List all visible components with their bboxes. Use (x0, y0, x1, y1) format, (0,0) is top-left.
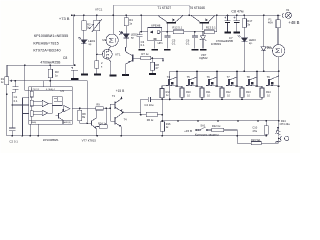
node dots protection (237, 120, 280, 139)
svg-text:R9: R9 (96, 102, 100, 106)
555 comparator 2 (42, 110, 48, 116)
LED VD2 (123, 34, 129, 38)
wire R9 out to VT bases (103, 108, 110, 124)
chassis ground hatch (275, 138, 281, 143)
wire collector bus y=71 (170, 70, 279, 72)
svg-text:Т6 КТ816Б: Т6 КТ816Б (189, 6, 205, 10)
transistor VT3 upper (114, 101, 116, 108)
555 pin stubs bottom (30, 124, 38, 135)
capacitor C8 electrolytic x=227.1 (227, 15, 229, 31)
555 divider resistors (31, 87, 33, 125)
wire R1 adjust arrow line y=80.3 (9, 81, 87, 124)
wire x=43 into box top (43, 81, 45, 87)
wire resistor R3 column x=50 (49, 65, 51, 81)
output connector (280, 136, 281, 140)
transistor T2 legs (191, 16, 215, 30)
capacitor C3 column x=139 (138, 32, 140, 49)
wire R8 column x=79.4 (80, 108, 91, 123)
wire R24k left stub (96, 126, 99, 128)
ground bar C5 (164, 49, 171, 51)
wire mid sense line y=98.6 (141, 99, 262, 114)
svg-text:4700мкФ25В: 4700мкФ25В (40, 60, 61, 64)
ground bar 2k column (94, 73, 101, 75)
regulator gnd bar mark (153, 38, 156, 40)
motor M1 circle (273, 45, 285, 57)
thermistor RK1 body (94, 20, 100, 30)
capacitor C6 column x=194.5 (194, 32, 196, 49)
svg-text:47м: 47м (252, 129, 257, 133)
svg-text:КР1008ВИ1=NE555: КР1008ВИ1=NE555 (34, 34, 68, 38)
svg-text:+15 В: +15 В (116, 89, 124, 93)
wire R1 left column x=6 (6, 65, 8, 136)
capacitor C2 (9, 128, 15, 131)
transistor T1 legs (158, 16, 183, 32)
wire riser x=141 bus to line (140, 15, 142, 32)
svg-text:ВЫХОД: ВЫХОД (62, 122, 70, 124)
svg-text:R12 5.1: R12 5.1 (172, 25, 182, 29)
svg-text:НР1: НР1 (158, 41, 164, 45)
svg-text:Т1 КТ827: Т1 КТ827 (157, 6, 171, 10)
wire pin2 from C column (12, 104, 28, 106)
switch SA1 (199, 129, 201, 131)
svg-text:R24 1к: R24 1к (98, 121, 107, 125)
svg-text:кр.: кр. (249, 41, 253, 45)
ground bar M2/VT1 column (109, 74, 116, 76)
resistor R13 (204, 30, 214, 34)
555 output buffer (64, 106, 70, 112)
ground bar LED1 column (81, 73, 88, 75)
svg-text:0.1: 0.1 (172, 42, 176, 46)
svg-text:+48 В: +48 В (288, 20, 299, 25)
svg-text:М2: М2 (102, 38, 106, 42)
svg-text:VT7 КТ815: VT7 КТ815 (82, 138, 97, 142)
regulator circle mark (157, 31, 160, 34)
svg-text:VT1: VT1 (115, 53, 121, 57)
output cell T9 (266, 76, 279, 86)
connector + lamp HL1 (279, 14, 281, 16)
wire R6 right to column x=162 (157, 99, 162, 135)
wire protection feed y=129.6 (195, 130, 237, 136)
capacitor C1 (12, 87, 18, 89)
svg-text:0.1: 0.1 (141, 43, 145, 47)
svg-text:R7 1к: R7 1к (141, 52, 149, 56)
svg-text:С2 0.1: С2 0.1 (9, 139, 18, 143)
svg-text:С8 47м: С8 47м (231, 9, 244, 13)
thermistor t arrow (89, 24, 94, 29)
resistor R16 (160, 122, 164, 132)
svg-text:4700мкФ25В: 4700мкФ25В (216, 39, 233, 43)
wire VT out y=112 (123, 111, 141, 113)
output cell T7 (226, 71, 244, 99)
svg-text:0.1: 0.1 (186, 42, 190, 46)
diode VD1 column x=263.2 (263, 15, 265, 71)
wire column R4/VD2 x=125.8 (124, 15, 127, 51)
wire M2 top riser x=112.7 (112, 5, 114, 34)
LED3 x=244 (242, 38, 248, 42)
555 output pin wire y=107.5 (72, 107, 95, 109)
ground bar C9 (233, 32, 240, 34)
potentiometer R24 (278, 121, 280, 137)
node dots top bus (71, 15, 279, 17)
ground bar 47k (149, 73, 156, 75)
transistor T1 base bar (166, 22, 176, 24)
resistor R24 1k horizontal (99, 125, 107, 128)
capacitor C5 column x=167 (166, 32, 168, 49)
wire M2 to VT1 (108, 46, 110, 49)
LED1 symbol on x=83.5 (81, 40, 87, 44)
ground bar C3 (138, 49, 145, 51)
wire top bus +73V y=15 (71, 14, 278, 16)
svg-text:40А: 40А (268, 21, 273, 25)
wire bottom bus y=135.4 (7, 135, 267, 137)
node dots block (161, 71, 279, 122)
svg-text:47: 47 (155, 66, 159, 70)
wire column C8-big x=73.5 (73, 15, 75, 78)
svg-text:С8: С8 (63, 56, 67, 60)
wire R6 left stub (141, 114, 147, 116)
transistor VT2 mirrored (132, 54, 134, 61)
svg-text:+73 В: +73 В (59, 16, 70, 21)
resistor R6 (146, 112, 157, 117)
wire output bus y=120.5 (162, 120, 278, 122)
svg-text:Л1: Л1 (286, 8, 290, 12)
wire gray top line y=4.9 (113, 5, 189, 15)
output cell T6 (206, 71, 224, 99)
svg-text:КРЕН8: КРЕН8 (151, 24, 160, 28)
output cell T4 (166, 71, 184, 99)
svg-text:С4 10н: С4 10н (144, 103, 153, 107)
transistor T2 base bar (199, 22, 209, 24)
555 discharge transistor (58, 113, 60, 118)
resistor R7 (141, 56, 151, 60)
resistor R17 column x=244 (243, 15, 245, 37)
ground bar C8a (224, 32, 231, 34)
resistor R22 (212, 128, 224, 131)
wire bottom bus end to C10 (265, 135, 267, 137)
MOSFET VT1 circle (102, 49, 112, 59)
wire column R2/LED1 x=83.5 (83, 15, 85, 73)
ground bar VD7 (200, 49, 207, 51)
svg-text:0.1: 0.1 (14, 99, 18, 103)
resistor 2k under gate (95, 61, 99, 69)
regulator DA2 box (148, 28, 162, 41)
node dots line 31.5 (141, 31, 204, 33)
wire left riser of block x=169.3 (169, 71, 171, 99)
wire R7 right + hook arrow (151, 58, 163, 62)
svg-text:кр: кр (131, 36, 134, 40)
wire C1 column x=15 (12, 81, 15, 136)
ground bar C8 big (71, 78, 78, 80)
resistor R23 (251, 142, 261, 145)
svg-text:VТС1: VТС1 (95, 7, 103, 11)
output cell T5 (186, 71, 204, 99)
ground bar regulator (152, 49, 159, 51)
wire M1 down to bus71 (278, 57, 280, 121)
svg-text:КТ972А=BD240: КТ972А=BD240 (33, 48, 60, 52)
svg-text:4 ОБЩ 4: 4 ОБЩ 4 (46, 89, 56, 91)
svg-text:R6 1к: R6 1к (147, 118, 154, 122)
svg-text:КД522: КД522 (199, 56, 208, 60)
wire thermistor column x=96.4 (97, 15, 102, 60)
wire x=50.8 into box top (49, 81, 51, 87)
diode VD7 column x=202.6 (202, 32, 204, 49)
capacitor C4 in sense line (148, 97, 150, 102)
resistor 47k x=152 (151, 59, 153, 73)
svg-text:R13 5.1: R13 5.1 (206, 25, 216, 29)
svg-text:М1: М1 (267, 45, 271, 49)
svg-text:Контроль защиты: Контроль защиты (195, 132, 219, 136)
resistor R9 (96, 107, 104, 110)
svg-text:ОБЩ: ОБЩ (31, 122, 36, 124)
regulator input arrow mark (150, 31, 153, 34)
IC DA1 555 box (29, 87, 73, 125)
resistor R15 column x=277.6 (277, 15, 279, 44)
resistor R1 (5, 77, 9, 85)
transistor VT7 bottom (91, 120, 93, 125)
svg-text:R22 Ск: R22 Ск (212, 124, 221, 128)
motor M2 circle (106, 34, 118, 46)
555 comparator 1 (42, 100, 48, 106)
resistor R2 (82, 21, 86, 31)
wire y=142.8 row (237, 136, 278, 143)
svg-text:2 ПОЛ 2: 2 ПОЛ 2 (31, 89, 40, 91)
svg-text:+15 В: +15 В (184, 129, 192, 133)
wire VT1 source down (109, 59, 111, 75)
resistor R8 (78, 110, 82, 120)
capacitor C9 electrolytic x=236.2 (236, 15, 238, 31)
wire rail to 555 top x=24.4 (25, 65, 29, 90)
555 RS trigger box (52, 97, 62, 106)
resistor R14 sense (160, 89, 164, 98)
resistor R4 (124, 18, 128, 26)
wire left pin column x=22.1 (23, 98, 29, 136)
+15V arrow up (120, 96, 122, 99)
wire regulator input line y=31.5 (139, 15, 216, 32)
svg-text:КР1008ВИ1: КР1008ВИ1 (43, 138, 59, 142)
ground bar C6 (192, 49, 199, 51)
resistor R12 (173, 30, 183, 34)
svg-text:SA1: SA1 (200, 123, 205, 127)
wire rail +15V y=64.8 (7, 64, 75, 66)
svg-text:СП3-19а: СП3-19а (280, 123, 291, 126)
node dots bottom area (6, 80, 163, 137)
output cell T8 (246, 71, 264, 99)
capacitor C8 big plate (71, 69, 78, 71)
svg-text:кр: кр (89, 42, 92, 46)
svg-text:R23 5к1: R23 5к1 (251, 138, 261, 142)
wire pot to connector (279, 137, 281, 139)
wire VT3/VT4 base column x=110 (110, 104, 114, 121)
svg-text:U1: U1 (60, 89, 64, 93)
ground bar VT2 column (122, 74, 129, 76)
capacitor C10 column x=266 (265, 121, 267, 136)
transistor VT4 lower (114, 117, 116, 124)
node dot rail junctions (24, 54, 153, 67)
wire regulator pin down (154, 41, 156, 49)
svg-text:КРЕН8Б=7815: КРЕН8Б=7815 (33, 41, 58, 45)
